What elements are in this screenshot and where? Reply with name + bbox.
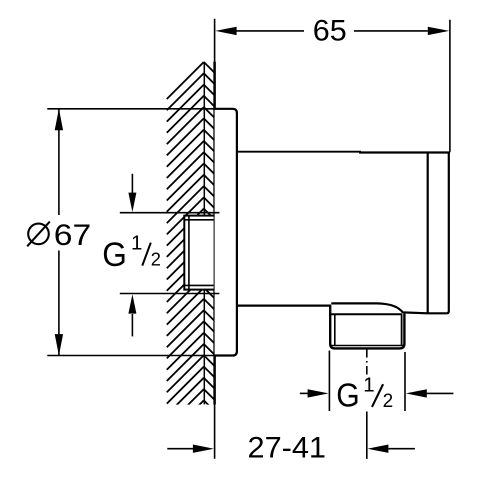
svg-text:27-41: 27-41 bbox=[248, 432, 327, 465]
svg-text:67: 67 bbox=[54, 219, 92, 252]
svg-text:G: G bbox=[336, 376, 359, 414]
svg-text:1: 1 bbox=[363, 374, 374, 397]
svg-text:65: 65 bbox=[313, 15, 347, 48]
svg-text:G: G bbox=[102, 235, 127, 273]
svg-text:1: 1 bbox=[131, 232, 142, 255]
svg-text:2: 2 bbox=[151, 249, 161, 270]
svg-text:2: 2 bbox=[383, 391, 394, 412]
